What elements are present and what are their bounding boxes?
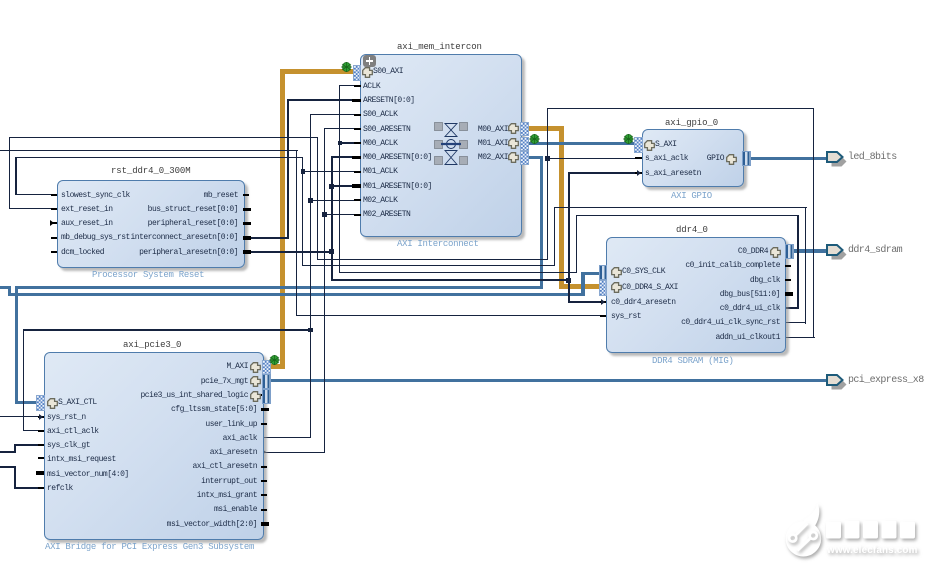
connector interconnect M02_AXI [520,151,529,165]
wire GPIO blue: axi_gpio GPIO to led_8bits port [748,157,827,160]
wire ext_reset net H1: from x9.4 top-left to right column [9,137,319,138]
junction peripheral_aresetn at rst branch [329,249,334,254]
connector interconnect S00_AXI [353,65,362,81]
junction M01_ACLK branch [301,169,306,174]
expand button [363,55,376,67]
arrowhead pcie sys_rst_n [39,414,46,420]
connector gpio S_AXI [634,137,643,153]
connector pcie S_AXI_CTL [36,395,45,411]
wire S00_AXI gold: pcie M_AXI to interconnect S00_AXI [268,364,284,369]
block axi_pcie3_0 (AXI Bridge for PCI Express Gen3) [44,352,264,540]
port ddr4_sdram [824,242,848,262]
block axi_gpio_0 (AXI GPIO) [642,129,744,188]
connector pcie M_AXI [262,360,271,376]
bug marker on M01_AXI wire left [528,133,541,145]
wire sys_clk_gt: from left edge to pcie [14,444,44,446]
ddr4 stubs [785,265,791,267]
wire ui_clk net: ddr4 c0_ddr4_ui_clk to ACLK / M00_ACLK [339,85,360,86]
wire M00_AXI gold: interconnect M00_AXI to ddr4 C0_DDR4_S_AXI [525,126,564,131]
block rst_ddr4_0_300M (Processor System Reset) [57,180,245,268]
junction axi_ctl_aclk branch [308,328,313,333]
interconnect left pin stubs [354,85,361,87]
port pci_express_x8 [824,372,848,392]
wire axi_aresetn net: pcie axi_aresetn to S00_ARESETN / M02_ARESETN [324,128,325,452]
pcie stubs [38,457,44,459]
bug marker on pcie M_AXI wire [268,354,281,366]
junction aresetn at ddr4 column [566,278,571,283]
arrowhead gpio s_axi_aresetn [637,170,644,176]
port led_8bits [824,149,848,169]
connector ddr4 C0_SYS_CLK [599,265,608,280]
connector ddr4 C0_DDR4_S_AXI [599,280,608,296]
connector interconnect M00_AXI [520,122,529,136]
svg-text:www.elecfans.com: www.elecfans.com [826,545,918,556]
wire axi_aclk net: pcie axi_aclk to S00_ACLK / M02_ACLK / axi_ctl_aclk [310,114,311,438]
wire M01_AXI blue: interconnect M01_AXI to axi_gpio S_AXI [525,142,635,145]
connector interconnect M01_AXI [520,137,529,151]
arrowhead pcie axi_aresetn [262,449,269,455]
wire addn_ui_clkout1 net: ddr4 addn_ui_clkout1 around top to gpio aclk and left column [547,108,815,109]
watermark elecfans logo [778,498,933,564]
block axi_mem_intercon (AXI Interconnect) [360,54,522,237]
arrowhead ddr4 c0_ddr4_aresetn [601,299,608,305]
wire C0_SYS_CLK blue: from left edge to ddr4 C0_SYS_CLK [0,286,11,289]
junction M00_ACLK branch [338,141,343,146]
wire refclk: from left edge to pcie [14,487,44,489]
bug marker on M01_AXI wire right [622,133,635,145]
wire sys_rst_n: from left edge to pcie [0,416,46,417]
junction M01_ARESETN [329,184,334,189]
block ddr4_0 (DDR4 SDRAM MIG) [606,237,786,353]
wire sys_rst net H2: from left edge to ddr4 sys_rst [0,150,298,151]
wire slowest_sync_clk net H3 [15,157,303,158]
pcie left pin stubs [38,416,44,418]
interconnect crossbar icon [433,120,470,167]
wire peripheral_aresetn navy: rst to M00/M01 ARESETN, gpio, ddr4 [244,251,333,253]
interface pin S00_AXI [362,67,373,78]
junction M02_ACLK branch [308,198,313,203]
gpio pin stubs [635,157,642,159]
junction gpio s_axi_aclk branch [545,156,550,161]
connector ddr4 C0_DDR4 out [785,244,794,259]
ddr4 left pin stubs [600,301,607,303]
rst pin stubs [51,194,57,196]
connector pcie shared_logic [262,389,271,404]
junction M02_ARESETN branch [322,212,327,217]
wire C0_DDR4 blue: ddr4 C0_DDR4 to ddr4_sdram port [791,249,827,252]
arrowhead rst aux_reset_in [50,220,57,226]
wire M02_AXI blue: interconnect M02_AXI to pcie S_AXI_CTL [525,156,543,159]
wire interconnect_aresetn navy: rst to interconnect ARESETN [287,99,361,101]
connector pcie pcie_7x_mgt [262,374,271,389]
arrowhead pcie axi_ctl_aresetn [262,464,269,470]
wire pcie_7x_mgt blue: pcie to pci_express_x8 port [268,379,827,382]
bug marker on S00_AXI wire [340,61,353,73]
connector gpio GPIO out [742,151,751,166]
